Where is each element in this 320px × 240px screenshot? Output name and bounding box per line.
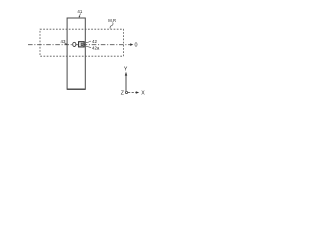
svg-text:X: X xyxy=(141,91,145,97)
svg-text:Z: Z xyxy=(121,91,124,97)
Y axis arrowhead xyxy=(125,72,127,76)
svg-text:42: 42 xyxy=(92,39,97,44)
coordinate axes: Y axis line xyxy=(125,75,127,92)
body 41 tall rectangle xyxy=(67,18,85,89)
leader M,R xyxy=(110,23,113,29)
X axis arrowhead xyxy=(136,91,139,93)
dashed region M,R xyxy=(40,29,124,56)
svg-text:41: 41 xyxy=(77,9,82,14)
leader 41 arrow xyxy=(79,14,80,17)
leader 42a xyxy=(86,46,91,48)
svg-text:M,R: M,R xyxy=(108,18,116,23)
leader 42 xyxy=(86,41,91,43)
origin circle Z axis xyxy=(125,91,127,93)
component 42 box xyxy=(79,42,85,47)
leader 43 arrow xyxy=(65,43,67,45)
component 42 inner white dot xyxy=(82,44,83,45)
svg-text:Y: Y xyxy=(124,66,128,72)
svg-text:0: 0 xyxy=(135,42,138,48)
centerline arrowhead xyxy=(130,43,133,46)
svg-text:42a: 42a xyxy=(92,45,100,50)
body 41 bottom edge thick xyxy=(67,88,85,90)
component 42 inner element xyxy=(81,43,84,46)
X axis dashed line xyxy=(128,92,137,94)
circle 43 xyxy=(73,42,76,46)
centerline xyxy=(28,44,131,46)
